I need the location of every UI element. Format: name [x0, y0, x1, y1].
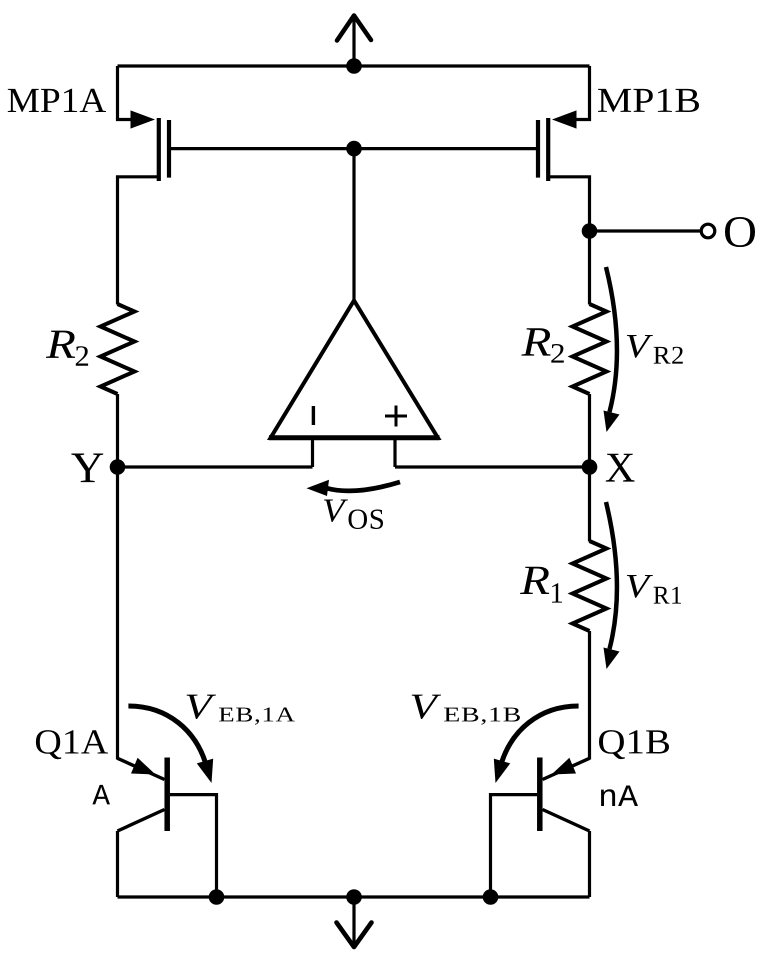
wire: Q1B base to ground rail: [491, 795, 538, 897]
label VOS sub OS: [349, 510, 384, 530]
wire: MP1A source lead from rail: [118, 66, 141, 120]
wire: top supply rail: [118, 64, 590, 67]
label R1 R: [520, 567, 549, 594]
wire: bottom ground rail: [118, 895, 590, 898]
transistor Q1A: [118, 758, 168, 832]
wire: op-amp inverting input stub: [311, 438, 314, 467]
wire: MP1B drain lead: [549, 177, 590, 231]
label R2 right R: [521, 328, 550, 355]
label VEB1B V: [412, 695, 441, 719]
resistor R2 right zigzag: [573, 304, 607, 394]
ground symbol arrow: [337, 897, 372, 947]
label R1 sub 1: [552, 583, 562, 602]
label Y: [71, 454, 103, 483]
wire: R2 left to node Y: [116, 394, 119, 467]
label VR1 V: [627, 575, 653, 598]
transistor Q1B: [540, 758, 590, 832]
wire: node Y to op-amp minus: [118, 465, 313, 468]
label VR2 V: [627, 335, 653, 358]
node: Q1A base rail dot: [209, 889, 225, 905]
wire: output stub to terminal O: [590, 229, 702, 232]
node: output junction dot: [582, 223, 598, 239]
label VR1 sub R1: [654, 587, 681, 604]
op-amp plus input mark: [385, 406, 407, 427]
wire: gate bus MP1A-MP1B: [171, 147, 536, 150]
wire: MP1A drain lead: [118, 177, 159, 305]
wire: MP1B source lead from rail: [567, 66, 590, 120]
terminal O open circle: [701, 224, 715, 238]
op-amp U1 triangle: [271, 301, 439, 439]
wire: gate node down to op-amp output apex: [352, 149, 355, 301]
label R2 left sub 2: [76, 346, 88, 366]
label MP1B: [598, 89, 699, 112]
wire: Q1A collector down: [116, 831, 119, 897]
node: ground rail center dot: [346, 889, 362, 905]
op-amp minus input mark: [312, 406, 315, 425]
resistor R1 zigzag: [573, 541, 607, 631]
wire: node Y down to Q1A emitter: [116, 467, 119, 760]
wire: Q1B collector down: [588, 831, 591, 897]
wire: op-amp plus to node X: [395, 465, 590, 468]
label R2 right sub 2: [551, 344, 564, 363]
label MP1A: [8, 89, 106, 112]
transistor MP1A: [131, 110, 170, 181]
node: gate junction dot: [346, 141, 362, 157]
label VEB1A V: [187, 695, 216, 719]
annotation arrow V_OS: [307, 480, 401, 496]
node X dot: [582, 459, 598, 475]
wire: node X down to R1: [588, 467, 591, 542]
power VDD supply arrow: [337, 16, 371, 67]
wire: R2 right to node X: [588, 394, 591, 467]
label VEB1A sub EB1A: [219, 708, 295, 725]
wire: op-amp non-inverting input stub: [393, 438, 396, 467]
label A ratio: [92, 785, 110, 805]
label Q1A: [36, 730, 108, 759]
label VR2 sub R2: [654, 347, 683, 364]
label Q1B: [599, 730, 669, 759]
wire: R1 to Q1B emitter: [588, 631, 591, 760]
annotation arrow V_EB,1B: [494, 706, 579, 783]
node: Q1B base rail dot: [483, 889, 499, 905]
label VOS V: [324, 500, 348, 523]
label R2 left R: [46, 331, 75, 358]
label nA ratio: [601, 786, 638, 807]
wire: Q1A base to ground rail: [170, 795, 217, 897]
annotation arrow V_R2: [604, 267, 620, 432]
node Y dot: [110, 459, 126, 475]
annotation arrow V_R1: [604, 502, 620, 669]
transistor MP1B: [538, 110, 577, 181]
label X: [606, 454, 635, 482]
annotation arrow V_EB,1A: [128, 706, 213, 783]
label VEB1B sub EB1B: [444, 708, 520, 725]
wire: output node down to R2 right: [588, 231, 591, 305]
resistor R2 left zigzag: [101, 304, 135, 394]
node: VDD junction dot: [346, 58, 362, 74]
label O: [725, 217, 755, 247]
